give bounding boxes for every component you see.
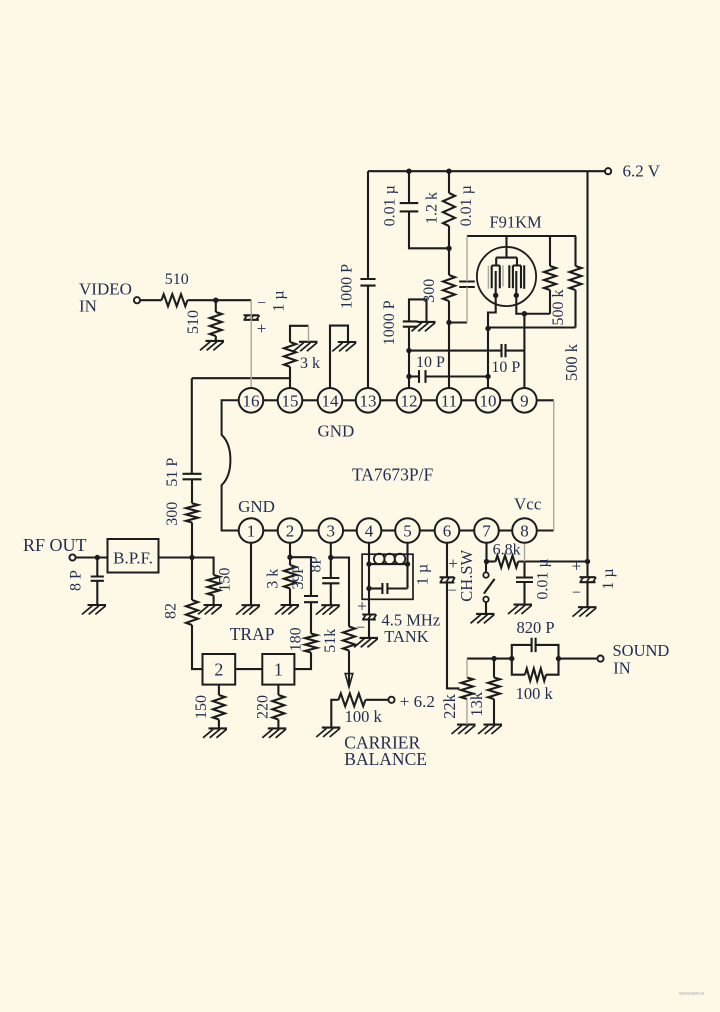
svg-text:8: 8 [520, 522, 529, 541]
svg-text:500 k: 500 k [550, 290, 567, 326]
svg-text:82: 82 [162, 603, 179, 619]
svg-text:180: 180 [287, 627, 304, 651]
svg-text:TANK: TANK [384, 627, 429, 646]
svg-text:7: 7 [482, 522, 491, 541]
svg-text:1: 1 [247, 522, 256, 541]
svg-text:+: + [572, 557, 582, 576]
svg-text:B.P.F.: B.P.F. [113, 548, 153, 567]
svg-text:300: 300 [421, 279, 438, 303]
svg-text:hosted by tradebit com: hosted by tradebit com [679, 991, 704, 996]
svg-text:1 µ: 1 µ [600, 568, 617, 589]
svg-text:510: 510 [165, 271, 189, 288]
svg-text:100 k: 100 k [345, 707, 383, 726]
svg-text:39P: 39P [290, 565, 307, 589]
svg-text:1.2 k: 1.2 k [423, 192, 440, 224]
svg-text:F91KM: F91KM [489, 213, 542, 232]
svg-text:10 P: 10 P [416, 354, 445, 371]
svg-text:51 P: 51 P [164, 458, 181, 487]
svg-text:100 k: 100 k [516, 684, 554, 703]
svg-text:12: 12 [401, 391, 418, 410]
svg-text:RF OUT: RF OUT [23, 535, 87, 555]
svg-text:510: 510 [185, 310, 202, 334]
svg-text:+ 6.2: + 6.2 [400, 692, 435, 711]
svg-text:SOUND: SOUND [613, 641, 670, 660]
svg-text:−: − [572, 585, 581, 602]
svg-text:500 k: 500 k [562, 343, 581, 381]
svg-text:BALANCE: BALANCE [344, 749, 427, 769]
svg-text:+: + [257, 319, 267, 338]
svg-text:16: 16 [243, 391, 260, 410]
svg-text:2: 2 [214, 660, 223, 680]
svg-text:1000 P: 1000 P [381, 300, 398, 345]
svg-text:−: − [257, 295, 266, 312]
svg-text:CH.SW: CH.SW [457, 549, 476, 601]
svg-text:4: 4 [365, 522, 374, 541]
svg-text:10 P: 10 P [491, 359, 520, 376]
svg-text:0.01 µ: 0.01 µ [534, 558, 551, 599]
svg-text:3 k: 3 k [300, 355, 320, 372]
svg-text:3: 3 [327, 522, 336, 541]
svg-text:6.8k: 6.8k [493, 541, 521, 558]
svg-text:15: 15 [282, 391, 299, 410]
svg-text:150: 150 [217, 568, 234, 592]
svg-text:14: 14 [322, 391, 340, 410]
svg-text:0.01 µ: 0.01 µ [458, 185, 475, 226]
svg-text:2: 2 [286, 522, 295, 541]
svg-text:GND: GND [238, 497, 275, 516]
svg-text:51k: 51k [322, 629, 339, 653]
svg-text:−: − [447, 583, 456, 600]
svg-text:5: 5 [403, 522, 412, 541]
svg-text:8P: 8P [308, 556, 325, 572]
svg-text:300: 300 [164, 502, 181, 526]
svg-text:8 P: 8 P [67, 570, 84, 591]
svg-text:11: 11 [441, 391, 457, 410]
svg-text:6.2 V: 6.2 V [623, 161, 661, 180]
svg-text:1: 1 [274, 660, 283, 680]
svg-text:TRAP: TRAP [230, 624, 275, 644]
svg-text:10: 10 [480, 391, 497, 410]
svg-text:22k: 22k [440, 693, 459, 719]
svg-text:150: 150 [193, 695, 210, 719]
svg-text:GND: GND [317, 422, 354, 441]
svg-text:IN: IN [613, 658, 630, 677]
svg-text:3 k: 3 k [265, 569, 282, 589]
svg-text:220: 220 [254, 695, 271, 719]
svg-text:0.01 µ: 0.01 µ [381, 185, 398, 226]
svg-text:1000 P: 1000 P [338, 264, 355, 309]
svg-text:6: 6 [443, 522, 452, 541]
svg-text:−: − [356, 620, 365, 637]
svg-text:IN: IN [79, 297, 97, 316]
svg-text:9: 9 [520, 391, 529, 410]
svg-text:TA7673P/F: TA7673P/F [352, 464, 434, 484]
svg-text:13: 13 [360, 391, 377, 410]
svg-text:1 µ: 1 µ [415, 564, 432, 585]
svg-text:13k: 13k [467, 691, 486, 717]
svg-text:Vcc: Vcc [514, 495, 542, 514]
svg-text:+: + [357, 597, 367, 616]
svg-text:1 µ: 1 µ [271, 290, 288, 311]
svg-text:820 P: 820 P [516, 618, 554, 637]
